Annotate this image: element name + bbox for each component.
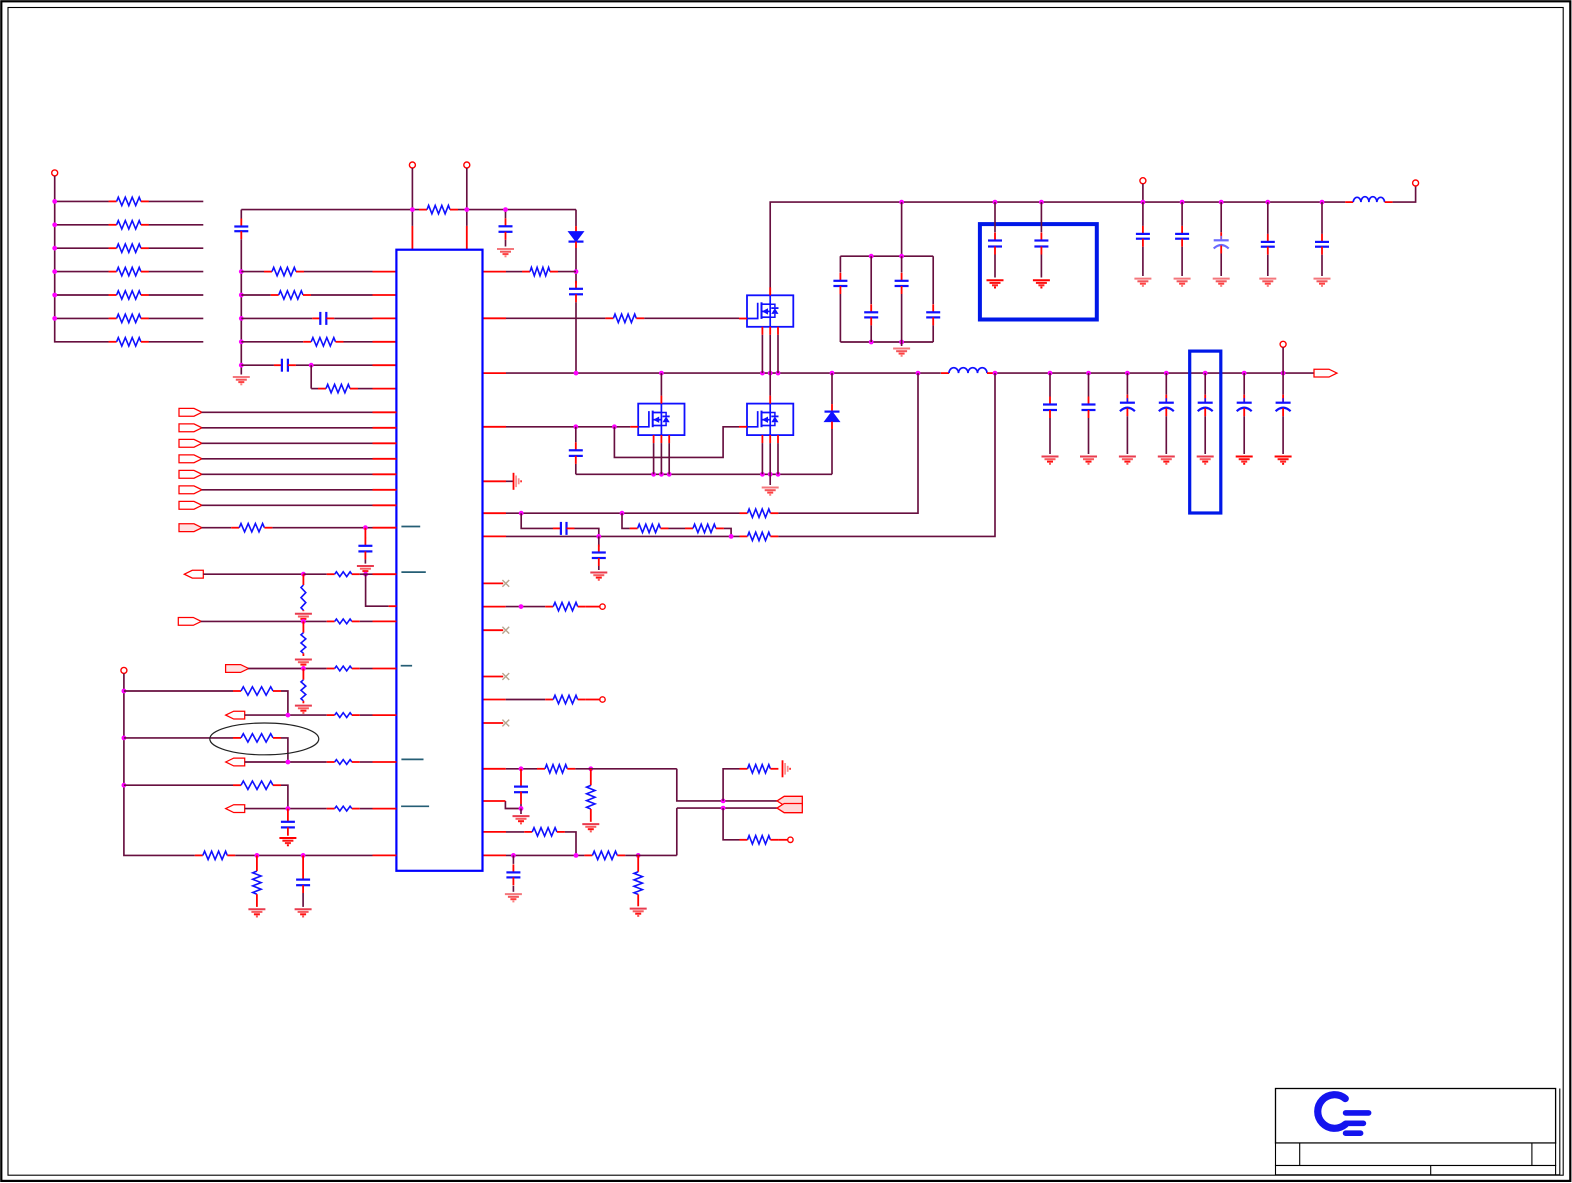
capacitor C29 pol [1198,395,1213,417]
lead D2 b [831,422,833,429]
resistor R33 [327,666,360,671]
open pin P4 [1413,180,1419,186]
wire fkdn branch [723,808,739,840]
pin stub U1 L13 [373,504,397,506]
wire C31 stem [1282,373,1284,395]
wire row1 out [149,200,204,202]
resistor R30 [301,585,306,610]
lead R22 a [590,769,592,786]
resistor R17 [685,524,724,532]
wire G6 stem [520,809,522,815]
wire C16 stem [1321,202,1323,234]
resistor R16 [630,524,669,532]
ground G C16 [1314,279,1331,286]
ground G11 [295,614,312,621]
resistor R22 [587,785,595,809]
capacitor C20 [514,787,528,793]
wire C14 stem b [1220,254,1222,277]
lead R34 a [302,669,304,680]
pin stub U1 L16 [389,605,397,607]
wire C27 stem [1126,373,1128,395]
capacitor C22 [358,538,372,560]
ground G8 [505,894,522,901]
pin stub U1 L5 [373,364,397,366]
wire bottom a [235,854,372,856]
resistor R7 [109,338,149,346]
wire row5 out [149,294,204,296]
capacitor C17 [569,442,583,464]
wire C29 stem b [1204,416,1206,454]
open pin P2 [409,162,415,168]
wire rail209 [241,209,419,211]
wire row574 a [203,573,306,575]
pin stub U1 R4 [483,426,507,428]
junction fb2 [519,806,524,811]
resistor R J15 [327,806,360,811]
diode D1 [569,232,584,242]
wire loop1 b [281,691,288,715]
ground G C31 [1275,457,1292,464]
wire C13 stem [1181,202,1183,226]
wire row5 in [241,364,274,366]
title block frame [1276,1089,1560,1175]
wire C11 stem [1040,202,1042,232]
pin stub U1 R10 [483,629,504,631]
wire fork dn [676,808,678,855]
open pin P6 [600,604,605,609]
pin stub U1 R1 [483,271,507,273]
resistor R19 [545,602,586,610]
wire loop2 b [281,738,288,762]
capacitor C12 [1136,226,1150,247]
wire row668 b [360,668,373,670]
wire C11 stem b [1040,255,1042,278]
wire C28 stem b [1165,416,1167,454]
junction fb [519,766,594,771]
ground G C29 [1197,457,1214,464]
wire port8 [202,504,373,506]
resistor R12 [318,384,358,392]
ground G6 [513,816,530,823]
wire C9 stem [932,256,934,304]
wire Q3 s2 [769,443,771,474]
wire C17 stem b [575,464,577,474]
wire C19 stem [598,536,600,546]
junction row668 [301,666,306,671]
pin stub U1 L2 [373,294,397,296]
wire row VCC in b [304,271,373,273]
wire csn [506,535,740,537]
junction J15 [286,806,291,811]
wire row3 [55,247,109,249]
inductor L1 [941,368,995,373]
wire row4 [55,271,109,273]
wire Q1 s1 [761,335,763,373]
resistor R29 [327,572,360,577]
pin stub U1 R8 [483,582,504,584]
ground G C10 [987,280,1004,287]
wire Q2 s1 [653,443,655,474]
connector J6 [179,470,202,478]
capacitor C28 pol [1159,395,1174,417]
wire boot stem b [575,302,577,373]
capacitor C31 pol [1276,395,1291,417]
pin stub U1 R12 [483,699,506,701]
connector J11 [178,618,201,626]
wire port6 [202,473,373,475]
junctions csn [596,534,733,539]
resistor R18 [740,532,779,540]
wire D1-junc [575,248,577,272]
resistor R loop2 [233,734,281,742]
wire J14 a [245,761,327,763]
wire row2 [55,224,109,226]
capacitor C19 [592,545,606,567]
connector J10 [184,570,203,578]
wire port4 [202,442,373,444]
wire row3 out [149,247,204,249]
wire bank gnd stem [901,342,903,346]
wire C6 stem [839,256,841,272]
resistor R6 [109,314,149,322]
wire row2 out [149,224,204,226]
no-connect X3 [502,673,509,680]
pin stub U1 L12 [373,489,397,491]
wire C22 stem b [364,559,366,563]
wire comp [506,831,524,833]
lead R22 b [590,809,592,822]
wire row3 in b [334,317,372,319]
wire row6 in b [358,388,373,390]
resistor R10 [271,291,311,299]
junction J14 [286,760,291,765]
wire C15 stem b [1267,255,1269,276]
connector J5 [179,455,202,463]
wire boot stem [575,272,577,284]
ground G C28 [1158,457,1175,464]
pin stub U1 R3 [483,372,507,374]
wire bus1 [55,176,109,342]
lead P7 [586,699,600,701]
resistor R23 [740,765,779,773]
diode D2 [825,412,840,422]
lead R36 b [256,894,258,907]
wire Q2 s3 [668,443,670,474]
wire row574 c [360,573,373,575]
lead C23 a [287,809,289,822]
wire C16 stem b [1321,255,1323,276]
lead R36 a [256,855,258,871]
resistor R25 [524,828,565,836]
capacitor C16 [1315,234,1329,255]
junction boot [574,269,579,274]
ground G C13 [1174,279,1191,286]
capacitor C25 [1043,397,1057,419]
wire C7 stem [870,256,872,304]
wire C25 stem [1049,373,1051,396]
wire rail209b [458,209,576,211]
junction fork [721,799,726,811]
junctions lgate [573,424,616,429]
resistor R27 [634,872,642,895]
wire row VCC in [241,271,264,273]
capacitor C27 pol [1120,395,1135,417]
lead R30 b [302,610,304,611]
resistor R loop1 [233,687,281,695]
resistor R34 [301,680,306,701]
wire U1 top1 [411,210,413,226]
wire J15 a [245,808,327,810]
junctions bus474 [651,472,780,477]
lead R27 a [637,855,639,871]
wire row5-6 step [311,365,318,388]
capacitor C13 [1175,226,1189,247]
ground G7 [582,824,599,831]
wire bus3 [124,673,195,855]
wire csp cap branch [521,513,553,528]
wire fork dn b [677,807,777,809]
wire C8 stem [901,256,903,272]
wire loop3 b [281,785,288,808]
capacitor C14 pol [1214,232,1229,253]
wire row4 in [241,341,303,343]
capacitor C1 [499,218,513,240]
wire fb2 step [505,801,521,809]
wire Q2 d [660,373,662,396]
pin mark 1 [401,526,420,528]
wire loop2 a [124,737,233,739]
wire C7 stem b [870,325,872,342]
wire Q1 s2 [769,335,771,373]
pin stub U1 R2 [483,317,507,319]
connector J16 out [1314,369,1337,377]
wire ss right [506,854,584,856]
lead D1 a [575,226,577,232]
open pin P10 [1280,341,1286,347]
signal ground SG1 [514,473,522,490]
wire row1 [55,200,109,202]
wire C12 stem [1142,202,1144,226]
wire row6 out [149,317,204,319]
ground G3 [893,349,910,356]
resistor R11 [303,338,343,346]
open pin P1 [52,170,58,176]
capacitor C15 [1261,234,1275,255]
lead D2 a [831,404,833,412]
ground G C30 [1236,457,1253,464]
ground G1 [497,249,514,256]
junction row5 [309,363,314,368]
wire C14 stem [1220,202,1222,232]
wire rail202 end [1393,186,1416,202]
wire C19 stem b [598,566,600,570]
ground G9 [630,909,647,916]
no-connect X2 [502,627,509,634]
lead R32 a [302,621,304,632]
wire row7 out [149,341,204,343]
lead R27 b [637,894,639,906]
wire port2 [202,411,373,413]
capacitor C10 [988,233,1002,255]
wire J15 b [360,808,373,810]
capacitor C21 [506,864,520,885]
junction tp1 [519,604,524,609]
wire bus2 a [240,210,242,219]
wire C20 j [520,804,522,809]
resistor R24 [740,836,779,844]
junctions row574 [301,572,368,577]
resistor R2 [109,221,149,229]
wire csn b [778,373,995,536]
wire csp r branch [622,513,630,528]
ground G C26 [1080,457,1097,464]
pin stub U1 R7 [483,535,507,537]
wire bus474 [576,473,832,475]
signal ground SG2 [783,760,791,777]
capacitor C26 [1082,397,1096,419]
wire C12 stem b [1142,247,1144,276]
wire C28 stem [1165,373,1167,395]
pin stub U1 L15 [373,573,397,575]
wire bank bot [840,341,933,343]
wire row5 in b [296,364,311,366]
wire C24 c [302,893,304,907]
capacitor C30 pol [1237,395,1252,417]
capacitor C23 [281,822,295,828]
logo [1318,1095,1369,1133]
wire csp b [778,373,918,513]
resistor R1 [109,197,149,205]
wire C8 stem b [901,294,903,342]
junctions rail373 [574,371,1286,376]
wire C25 stem b [1049,418,1051,454]
lead C24 b [302,885,304,893]
wire comp b [565,832,576,856]
lead C22 a [364,528,366,539]
lead C24 a [302,855,304,879]
open pin P3 [464,162,470,168]
wire loop1 a [124,690,233,692]
pin stub U1 R11 [483,676,504,678]
resistor R21 [537,765,575,773]
resistor R J14 [327,760,360,765]
resistor R32 [301,633,306,654]
wire port5 [202,458,373,460]
connector J7 [179,486,202,494]
wire C17 stem [575,427,577,443]
junctions csp [519,511,625,516]
pin stub J14 [373,761,397,763]
junctions bottom [255,853,306,858]
ground G14 [279,838,296,845]
lead C23 b [287,827,289,835]
pin stub U1 L19 [373,854,397,856]
junction row621 [301,619,306,624]
lead C20 a [520,769,522,788]
pin stub U1 L14 [373,527,397,529]
capacitor C4 [274,359,296,372]
wire C13 stem b [1181,247,1183,276]
pin stub U1 L11 [373,473,397,475]
ground G10 [357,566,374,573]
wire C30 stem [1243,373,1245,395]
resistor R4 [109,267,149,275]
wire csp [506,512,740,514]
wire cap C1 stem [505,210,507,219]
wire C21 stem [512,855,514,864]
connector J9 [179,524,202,532]
connector J3 [179,424,202,432]
pin stub J13 [373,714,397,716]
lead P6 [586,606,600,608]
wire row5 [55,294,109,296]
wire fb [506,768,537,770]
pin stub U1 R9 [483,606,506,608]
pin stub U1 R6 [483,512,507,514]
pin stub J15 [373,808,397,810]
pin stub U1 L9 [373,442,397,444]
wire pin P5 stem [1142,184,1144,202]
lead R32 b [302,653,304,656]
pin stub U1 L10 [373,458,397,460]
wire bank top [840,255,933,257]
lead P8 [778,839,787,841]
wire lgate [506,426,630,428]
pin mark 4 [401,758,423,760]
wire C6 stem b [839,294,841,342]
pin stub U1 R13 [483,722,504,724]
wire Q1 s3 [777,335,779,373]
wire J14 b [360,761,373,763]
wire agnd [506,480,513,482]
wire csp cap branch b [575,528,599,536]
connector J14 [226,758,245,766]
ground G C11 [1033,280,1050,287]
ground G C12 [1134,279,1151,286]
wire Q3 gnd stem [769,474,771,485]
wire Q3 s1 [761,443,763,474]
no-connect X1 [502,580,509,587]
pin stub U1 L1 [373,271,397,273]
ground G12 [295,660,312,667]
wire row3 in [241,317,312,319]
resistor R15 [740,509,779,517]
transistor Q2 [630,396,684,444]
inductor L2 [1345,197,1392,202]
resistor R31 [327,619,360,624]
connector J2 [179,408,202,416]
wire C29 stem [1204,373,1206,395]
capacitor C18 [553,522,575,535]
ground G15 [248,909,265,916]
resistor R20 [545,695,586,703]
wire pin P10 stem [1282,347,1284,373]
wire C31 stem b [1282,416,1284,454]
wire Q2 s2 [660,443,662,474]
junctions ss right [511,853,641,858]
wire pin VCC1 [411,168,413,210]
wire lgate loop [614,427,739,458]
wire bus2 b [240,239,242,374]
capacitor C7 [864,304,878,325]
wire C27 stem b [1126,416,1128,454]
capacitor C9 [926,304,940,325]
ground G C15 [1259,279,1276,286]
pin mark 5 [401,805,429,807]
pin mark 3 [401,665,412,667]
wire C9 stem b [932,325,934,342]
capacitor C24 [296,880,310,886]
